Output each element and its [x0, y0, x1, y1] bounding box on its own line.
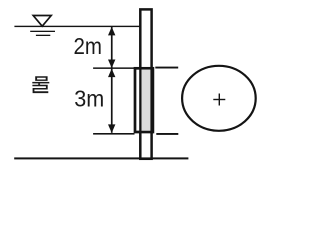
- extension line at gate bottom (left of wall): [93, 133, 134, 135]
- dimension arrowhead up (3m top): [108, 69, 115, 78]
- extension line at gate top (left of wall): [93, 67, 134, 69]
- circle center plus mark horizontal: [213, 99, 225, 100]
- dimension line (vertical, 2m + 3m): [111, 27, 113, 133]
- wall (vertical slab): [140, 9, 151, 158]
- gate rectangle (outline): [135, 68, 153, 132]
- free-surface sub-line 2: [36, 35, 50, 36]
- circle center plus mark vertical: [219, 94, 220, 106]
- svg-text:3m: 3m: [74, 85, 104, 111]
- wall right line over gate region: [150, 67, 152, 134]
- free-surface sub-line 1: [30, 31, 55, 32]
- label "물": jamo ㄹ: [32, 85, 48, 93]
- tie dash at gate bottom (right of wall): [156, 133, 178, 135]
- tie dash at gate top (right of wall): [155, 67, 178, 69]
- dimension arrowhead down (2m bottom): [108, 60, 115, 69]
- wall left line over gate region: [139, 67, 141, 134]
- label "물": jamo ㅜ bar: [32, 82, 49, 84]
- dimension arrowhead down (3m bottom, at gate bottom): [108, 124, 115, 132]
- water surface line: [14, 26, 140, 27]
- svg-text:2m: 2m: [74, 33, 103, 59]
- free-surface symbol triangle: [33, 16, 51, 27]
- ground line: [14, 157, 188, 159]
- gate gray fill between wall lines: [142, 70, 151, 131]
- dimension arrowhead up (top, at water line): [108, 27, 115, 36]
- label "물" (water) drawn as paths: jamo ㅁ: [35, 76, 47, 81]
- label "물": jamo ㅜ stem: [38, 83, 40, 85]
- gate end view circle: [182, 66, 256, 131]
